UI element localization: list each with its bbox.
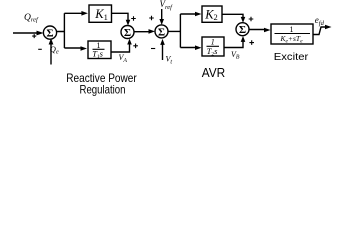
svg-text:Ke+sTe: Ke+sTe — [279, 34, 303, 45]
svg-text:Σ: Σ — [239, 24, 246, 36]
svg-text:AVR: AVR — [202, 66, 226, 80]
svg-text:Exciter: Exciter — [274, 51, 309, 63]
svg-text:Σ: Σ — [158, 26, 165, 38]
svg-text:Σ: Σ — [46, 28, 53, 40]
svg-text:1: 1 — [290, 25, 294, 34]
svg-text:Σ: Σ — [124, 27, 131, 39]
svg-text:Regulation: Regulation — [80, 82, 126, 96]
